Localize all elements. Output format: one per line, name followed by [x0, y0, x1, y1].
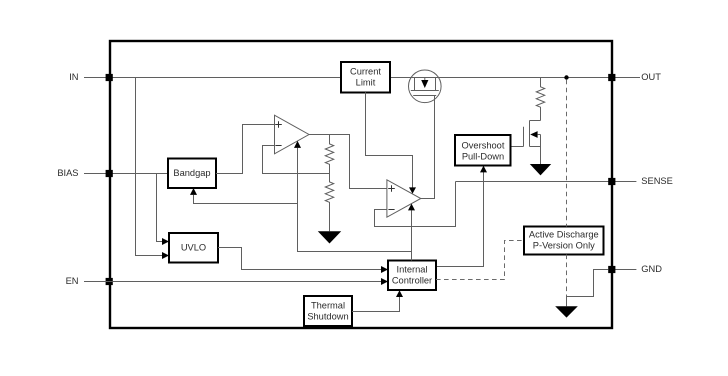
wire amp2 feedback to SENSE	[375, 182, 456, 227]
svg-text:Current: Current	[350, 67, 381, 77]
svg-text:OUT: OUT	[641, 72, 661, 82]
pin BIAS	[57, 168, 112, 178]
ground overshoot	[530, 164, 551, 175]
svg-text:Active Discharge: Active Discharge	[529, 230, 599, 240]
svg-text:P-Version Only: P-Version Only	[533, 241, 595, 251]
resistor R1 divider top	[325, 135, 333, 174]
wire IN rail	[84, 77, 342, 79]
pin IN	[69, 72, 113, 82]
wire GND lead	[608, 269, 636, 271]
wire bandgap out to amp1 +	[216, 125, 275, 174]
ground GND	[555, 306, 578, 317]
wire EN to controller	[84, 278, 388, 285]
wire IN to UVLO	[136, 78, 170, 260]
svg-text:UVLO: UVLO	[181, 243, 206, 253]
wire dashed OUT to active discharge	[566, 80, 568, 227]
internal controller box	[388, 261, 436, 291]
resistor pull-down	[536, 78, 544, 121]
wire OUT rail	[390, 77, 640, 79]
svg-text:SENSE: SENSE	[641, 176, 673, 186]
wire bias branch to bandgap	[190, 188, 298, 204]
wire amp1 feedback loop	[263, 146, 330, 174]
overshoot pull-down box	[455, 135, 511, 166]
pin SENSE	[608, 176, 673, 186]
ground divider	[318, 231, 341, 243]
wire SENSE rail	[456, 181, 637, 183]
wire thermal to controller	[352, 290, 403, 311]
wire GND pin path	[567, 270, 609, 307]
device boundary box	[110, 41, 612, 328]
pass transistor Q1 in circle	[409, 70, 442, 103]
svg-text:EN: EN	[66, 276, 79, 286]
svg-text:Pull-Down: Pull-Down	[462, 151, 504, 161]
wire current limit to amp2	[366, 92, 417, 194]
pin GND	[608, 264, 662, 274]
resistor R2 divider bottom	[325, 174, 333, 232]
svg-text:Thermal: Thermal	[311, 300, 345, 310]
current limit box	[341, 62, 390, 93]
junction dot OUT	[564, 75, 568, 79]
thermal shutdown box	[304, 296, 352, 326]
wire bias branch to amp1	[294, 141, 412, 252]
active discharge box	[524, 227, 604, 255]
wire controller bias to amp2	[408, 204, 415, 261]
svg-text:Controller: Controller	[392, 276, 432, 286]
wire dashed controller to active discharge	[436, 241, 524, 280]
wire UVLO to controller	[218, 248, 388, 274]
svg-text:Bandgap: Bandgap	[173, 168, 210, 178]
bandgap box	[168, 159, 216, 189]
wire BIAS lead	[84, 173, 168, 175]
wire BIAS to UVLO	[157, 174, 170, 246]
op-amp A1	[275, 115, 310, 154]
svg-text:IN: IN	[69, 72, 78, 82]
transistor Q2 overshoot NMOS	[510, 121, 541, 165]
svg-text:Internal: Internal	[396, 265, 427, 275]
wire amp2 out to pass gate	[421, 96, 435, 199]
pin EN	[66, 276, 113, 286]
UVLO box	[169, 233, 218, 263]
svg-text:Shutdown: Shutdown	[307, 311, 348, 321]
svg-text:GND: GND	[641, 264, 662, 274]
svg-text:BIAS: BIAS	[57, 168, 78, 178]
op-amp A2	[387, 180, 421, 217]
svg-text:Limit: Limit	[356, 78, 376, 88]
pin OUT	[608, 72, 661, 82]
svg-text:Overshoot: Overshoot	[462, 140, 505, 150]
wire amp1 out to amp2 +	[309, 135, 387, 189]
wire dashed active discharge down	[566, 255, 568, 297]
wire controller to overshoot	[436, 166, 487, 267]
